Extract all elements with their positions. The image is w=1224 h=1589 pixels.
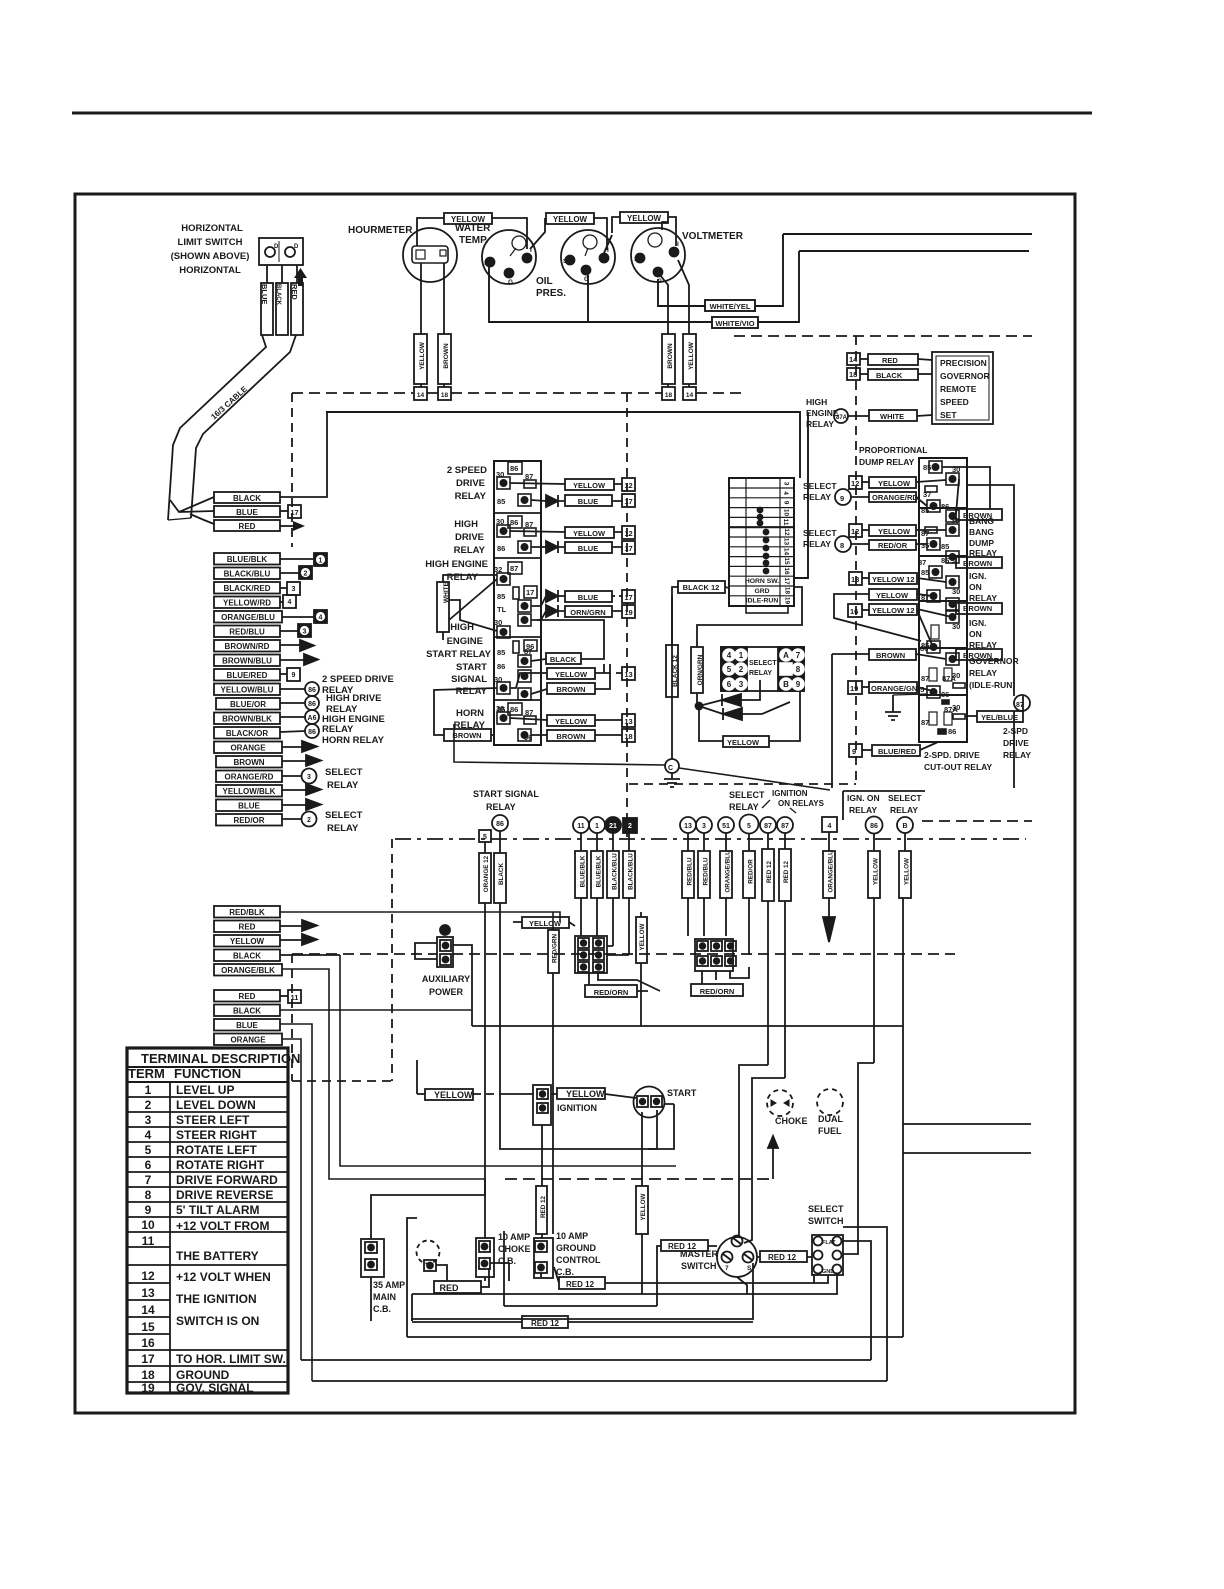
svg-text:10: 10 [141, 1218, 155, 1232]
terminal 17 [288, 505, 301, 518]
svg-text:RELAY: RELAY [455, 491, 487, 502]
wire from oil pres I to voltmeter [604, 235, 612, 253]
wire label BLACK [214, 492, 280, 503]
svg-text:YELLOW: YELLOW [555, 670, 588, 679]
svg-text:4: 4 [727, 651, 732, 660]
svg-text:ORN/GRN: ORN/GRN [570, 608, 605, 617]
svg-text:19: 19 [784, 597, 791, 605]
svg-text:11: 11 [577, 823, 585, 830]
svg-text:12: 12 [851, 479, 859, 488]
svg-text:ORN/GRN: ORN/GRN [697, 654, 704, 685]
terminal 86 circle [305, 724, 319, 738]
svg-text:GND: GND [822, 1269, 834, 1275]
svg-text:REMOTE: REMOTE [940, 384, 977, 394]
svg-text:86: 86 [497, 662, 505, 671]
svg-text:1: 1 [595, 823, 599, 830]
wire crossing to 86 [917, 610, 933, 647]
svg-text:ROTATE LEFT: ROTATE LEFT [176, 1143, 258, 1157]
wire label BLUE [214, 1019, 280, 1031]
svg-text:GROUND: GROUND [176, 1368, 230, 1382]
wire label BROWN vertical [662, 334, 675, 384]
svg-text:2: 2 [304, 571, 308, 578]
svg-text:ORANGE/RD: ORANGE/RD [872, 493, 918, 502]
junction node [696, 703, 703, 710]
svg-text:9: 9 [783, 501, 790, 505]
wire label YELLOW 12 [869, 604, 917, 615]
svg-text:YELLOW: YELLOW [627, 214, 662, 223]
svg-text:ORANGE/BLK: ORANGE/BLK [221, 966, 275, 975]
svg-text:BLUE/BLK: BLUE/BLK [580, 855, 587, 887]
svg-text:RED 12: RED 12 [531, 1319, 560, 1328]
svg-text:7: 7 [796, 651, 801, 660]
svg-text:87: 87 [525, 472, 533, 481]
ign on select relay caption [843, 791, 925, 820]
wire label BROWN right [956, 649, 1002, 660]
svg-text:YELLOW: YELLOW [555, 717, 588, 726]
wire label BLUE [261, 283, 273, 335]
svg-text:YELLOW: YELLOW [727, 738, 760, 747]
svg-text:13: 13 [141, 1286, 155, 1300]
svg-text:DUMP RELAY: DUMP RELAY [859, 457, 915, 467]
wire label RED/BLK [214, 906, 280, 918]
voltmeter gauge [631, 228, 685, 282]
wire RED 12 bottom label [522, 1316, 568, 1328]
wire label YELLOW [869, 477, 916, 488]
svg-text:85: 85 [497, 497, 505, 506]
wire label BROWN [956, 509, 1002, 520]
bottom long wires [301, 898, 1031, 1381]
wire BLACK up to bus [280, 413, 327, 497]
wire ORN/GRN vertical from strip [697, 587, 802, 647]
wire label BLUE to 17 [565, 495, 612, 506]
wire YELLOW from hourmeter [420, 263, 422, 334]
svg-text:3: 3 [783, 482, 790, 486]
svg-text:18: 18 [141, 1368, 155, 1382]
svg-text:17: 17 [624, 497, 632, 506]
svg-text:12: 12 [624, 529, 632, 538]
wire label BLUE [214, 506, 280, 517]
diode D1 [546, 495, 558, 507]
wire label YELLOW 12 [869, 573, 917, 584]
svg-text:BLUE/BLK: BLUE/BLK [227, 555, 268, 564]
select switch S5 [812, 1235, 843, 1275]
svg-text:87: 87 [524, 647, 532, 656]
terminal 86 circle [305, 682, 319, 696]
svg-text:14: 14 [849, 355, 858, 364]
svg-text:SELECT: SELECT [325, 810, 363, 821]
wire label WHITE/VIO [712, 317, 758, 328]
wire fanout to cable labels [170, 497, 214, 524]
wire RED 12 b [784, 833, 786, 849]
svg-text:1: 1 [319, 558, 323, 565]
svg-text:GOV. SIGNAL: GOV. SIGNAL [176, 1381, 254, 1395]
svg-text:RED: RED [882, 356, 898, 365]
svg-text:S: S [563, 258, 568, 265]
svg-text:RELAY: RELAY [806, 419, 834, 429]
svg-text:+12 VOLT WHEN: +12 VOLT WHEN [176, 1270, 271, 1284]
wire label RED/GRN vertical [548, 930, 559, 973]
terminal 4 [283, 595, 296, 608]
wire label WHITE/YEL [705, 300, 755, 311]
wire dashed horizontal y784 [629, 783, 856, 785]
svg-text:85: 85 [921, 506, 929, 515]
svg-text:ORANGE/BLU: ORANGE/BLU [725, 850, 732, 893]
wire ignition down feeds [504, 1093, 506, 1095]
wire select right loop [843, 1241, 871, 1360]
svg-text:BLACK/RED: BLACK/RED [223, 584, 270, 593]
terminal 13 [849, 572, 862, 585]
wire [489, 251, 799, 322]
svg-text:RELAY: RELAY [327, 780, 359, 791]
svg-text:3: 3 [145, 1113, 152, 1127]
svg-text:18: 18 [441, 392, 449, 399]
wire label YEL/BLUE [977, 711, 1023, 722]
svg-text:PRES.: PRES. [536, 288, 566, 299]
svg-text:YELLOW: YELLOW [451, 215, 486, 224]
center relay output rows [434, 478, 635, 742]
svg-text:S: S [747, 1265, 752, 1272]
svg-text:BROWN: BROWN [556, 685, 585, 694]
svg-text:13: 13 [851, 575, 859, 584]
svg-text:3: 3 [307, 774, 311, 781]
svg-text:SELECT: SELECT [749, 660, 777, 667]
svg-text:RELAY: RELAY [322, 724, 354, 735]
wire yellow b down [903, 898, 1031, 1337]
wire label YELLOW vertical [636, 917, 647, 963]
wire RED/BLU a [687, 833, 689, 851]
wire label BROWN/BLU [214, 655, 280, 667]
svg-text:86: 86 [496, 821, 504, 828]
start signal relay terminal 86 [492, 815, 508, 831]
svg-text:HORIZONTAL: HORIZONTAL [179, 265, 241, 276]
wire YELLOW b [904, 833, 906, 851]
svg-text:MAIN: MAIN [373, 1292, 396, 1302]
wire RED/BLU b [703, 833, 705, 851]
svg-text:85: 85 [923, 463, 931, 472]
svg-text:BANG: BANG [969, 527, 994, 537]
svg-text:21: 21 [609, 823, 617, 830]
svg-text:IGN. ON: IGN. ON [847, 793, 880, 803]
wire y1337 [407, 1218, 903, 1337]
svg-text:RELAY: RELAY [454, 545, 486, 556]
svg-text:15: 15 [141, 1320, 155, 1334]
svg-text:RED: RED [239, 522, 256, 531]
terminal 14 [683, 387, 696, 400]
svg-text:HORIZONTAL: HORIZONTAL [181, 223, 243, 234]
fuel pump dashed circle [417, 1241, 440, 1264]
wire label BROWN horn feed [444, 729, 491, 741]
terminal 4 [822, 817, 837, 832]
svg-text:TL: TL [497, 605, 507, 614]
wire dashed horizontal y1081 [292, 1080, 391, 1082]
wire label BROWN to 18 [547, 730, 595, 741]
svg-text:8: 8 [796, 665, 801, 674]
svg-text:87: 87 [921, 718, 929, 727]
svg-text:YELLOW: YELLOW [573, 481, 606, 490]
wire label RED 12 [559, 1277, 605, 1289]
svg-text:7: 7 [145, 1173, 152, 1187]
svg-text:17: 17 [624, 593, 632, 602]
10 amp ground control CB [534, 1238, 553, 1278]
svg-text:YELLOW: YELLOW [566, 1089, 605, 1099]
svg-text:STEER LEFT: STEER LEFT [176, 1113, 250, 1127]
svg-text:86: 86 [308, 729, 316, 736]
svg-text:BLACK: BLACK [233, 494, 261, 503]
svg-text:RED 12: RED 12 [783, 860, 790, 883]
svg-text:RED/GRN: RED/GRN [552, 934, 559, 963]
wire dashed horizontal y947 [292, 953, 955, 955]
svg-text:AUXILIARY: AUXILIARY [422, 974, 470, 984]
svg-text:RELAY: RELAY [1003, 750, 1031, 760]
svg-text:OIL: OIL [536, 276, 553, 287]
2-spd drive relay terminal 87 [1014, 695, 1030, 711]
svg-text:BLACK/BLU: BLACK/BLU [224, 570, 271, 579]
svg-text:ORANGE/RD: ORANGE/RD [225, 773, 274, 782]
svg-text:9: 9 [852, 747, 856, 756]
select relay terminal 3 [302, 769, 317, 784]
svg-text:RELAY: RELAY [969, 593, 997, 603]
wire label YELLOW [869, 525, 916, 536]
svg-text:TEMP.: TEMP. [459, 235, 488, 246]
svg-text:87: 87 [525, 520, 533, 529]
terminal 11 [573, 817, 589, 833]
svg-text:HORN SW.: HORN SW. [745, 578, 779, 585]
svg-text:YELLOW: YELLOW [529, 919, 562, 928]
terminal 4 filled [314, 610, 327, 623]
svg-text:SELECT: SELECT [729, 790, 765, 800]
svg-text:BLUE/BLK: BLUE/BLK [596, 855, 603, 887]
svg-text:5: 5 [145, 1143, 152, 1157]
svg-text:2: 2 [628, 823, 632, 830]
svg-text:B: B [783, 680, 789, 689]
svg-text:LIMIT SWITCH: LIMIT SWITCH [178, 237, 243, 248]
svg-text:BROWN: BROWN [963, 511, 992, 520]
svg-text:YELLOW: YELLOW [640, 1193, 647, 1220]
select relay caption right [803, 481, 837, 549]
wire dashed vertical x627 [626, 393, 628, 839]
svg-text:BLACK: BLACK [550, 655, 577, 664]
auxiliary power outlet [440, 925, 450, 935]
high engine relay terminal 87A [834, 409, 848, 423]
top rule [72, 112, 1092, 115]
svg-text:BLACK: BLACK [275, 284, 281, 306]
svg-text:13: 13 [624, 717, 632, 726]
svg-text:2 SPEED: 2 SPEED [447, 465, 487, 476]
svg-text:WHITE/YEL: WHITE/YEL [710, 302, 751, 311]
wire label RED/ORN [691, 984, 743, 996]
wire label YELLOW to 12 row2 [565, 527, 614, 538]
svg-text:85: 85 [921, 641, 929, 650]
wire label BLACK/BLU [214, 568, 280, 580]
strip pin dots [757, 507, 770, 575]
relay terminal squares with dots [925, 461, 965, 734]
svg-text:BLUE: BLUE [260, 284, 269, 304]
svg-text:2-SPD. DRIVE: 2-SPD. DRIVE [924, 750, 980, 760]
svg-text:13: 13 [684, 823, 692, 830]
svg-text:YELLOW/BLU: YELLOW/BLU [221, 686, 274, 695]
svg-text:86: 86 [510, 464, 518, 473]
wire yellow a to select flat [843, 1063, 874, 1254]
svg-text:HORN RELAY: HORN RELAY [322, 735, 385, 746]
wire label BROWN [956, 603, 1002, 614]
svg-text:START: START [456, 662, 487, 673]
svg-text:4: 4 [288, 599, 292, 606]
svg-text:RELAY: RELAY [486, 802, 516, 812]
svg-text:RED/OR: RED/OR [748, 859, 755, 884]
terminal 3 [287, 582, 300, 595]
terminal 13 [680, 817, 696, 833]
wire label BLUE to 17 row2 [565, 542, 612, 553]
select relay terminal 9 [835, 489, 851, 505]
svg-text:BLACK: BLACK [233, 952, 261, 961]
svg-text:SWITCH: SWITCH [808, 1216, 844, 1226]
svg-text:ENGINE: ENGINE [806, 408, 839, 418]
svg-text:12: 12 [624, 481, 632, 490]
terminal 21 filled [605, 817, 621, 833]
wire label RED [214, 520, 280, 531]
svg-text:14: 14 [686, 392, 694, 399]
svg-text:YELLOW: YELLOW [878, 479, 911, 488]
wire label BROWN/BLK [214, 713, 280, 725]
svg-text:3: 3 [702, 823, 706, 830]
svg-text:D: D [294, 244, 299, 250]
terminal 51 [718, 817, 734, 833]
terminal 5 square [479, 830, 491, 842]
svg-text:2: 2 [739, 665, 744, 674]
svg-text:86: 86 [308, 701, 316, 708]
svg-text:16: 16 [141, 1336, 155, 1350]
wire dashed vertical x391 [391, 839, 393, 1081]
svg-text:86: 86 [948, 727, 956, 736]
svg-text:SPEED: SPEED [940, 397, 969, 407]
svg-text:51: 51 [722, 823, 730, 830]
svg-text:18: 18 [624, 732, 632, 741]
svg-text:4: 4 [782, 491, 789, 495]
wire y1360 [301, 1359, 871, 1361]
wire label RED 12 right of master [760, 1251, 807, 1262]
center relay captions [425, 465, 491, 731]
svg-text:C.B.: C.B. [556, 1267, 574, 1277]
svg-text:YELLOW: YELLOW [639, 923, 646, 950]
svg-text:RED 12: RED 12 [768, 1253, 797, 1262]
svg-text:FLAT: FLAT [822, 1240, 836, 1246]
svg-text:SELECT: SELECT [325, 767, 363, 778]
BLACK 12 horizontal label [454, 581, 830, 790]
wire [658, 234, 783, 306]
svg-text:BROWN: BROWN [452, 731, 481, 740]
wire BLUE/BLK b [596, 833, 598, 851]
svg-text:BLACK/BLU: BLACK/BLU [612, 853, 619, 890]
svg-text:I: I [677, 241, 679, 248]
svg-text:BLUE: BLUE [578, 593, 598, 602]
svg-text:30: 30 [496, 517, 504, 526]
svg-text:SELECT: SELECT [808, 1204, 844, 1214]
ground node C [665, 759, 679, 773]
svg-text:9: 9 [840, 494, 844, 503]
svg-text:RED/BLK: RED/BLK [229, 908, 265, 917]
terminal 3 filled [298, 624, 311, 637]
svg-text:5: 5 [727, 665, 732, 674]
svg-text:BROWN: BROWN [876, 651, 905, 660]
terminal 86 circle [305, 696, 319, 710]
svg-text:12: 12 [851, 527, 859, 536]
svg-text:BLACK: BLACK [498, 863, 505, 885]
svg-text:86: 86 [510, 705, 518, 714]
svg-text:87: 87 [510, 564, 518, 573]
wire label YELLOW/RD [214, 597, 280, 609]
wire label ORANGE/GN [869, 682, 917, 693]
wire BLACK/BLU a [612, 833, 614, 851]
svg-text:2: 2 [145, 1098, 152, 1112]
wire label RED/BLU [214, 626, 280, 638]
terminal 86 [866, 817, 883, 834]
wire label YELLOW to 12 [565, 479, 614, 490]
svg-text:YEL/BLUE: YEL/BLUE [981, 713, 1018, 722]
svg-text:87: 87 [921, 674, 929, 683]
svg-text:87: 87 [764, 823, 772, 830]
wire label BLACK/OR [214, 727, 280, 739]
svg-text:HIGH ENGINE: HIGH ENGINE [425, 559, 488, 570]
wire label YELLOW ignition [557, 1088, 605, 1099]
terminal 16 [848, 604, 862, 617]
svg-text:86: 86 [941, 690, 949, 699]
svg-text:ORANGE/BLU: ORANGE/BLU [828, 850, 835, 893]
svg-text:GOVERNOR: GOVERNOR [940, 371, 990, 381]
wire BLACK 12 vertical [671, 597, 673, 759]
svg-text:32: 32 [494, 565, 502, 574]
wire master S down [412, 1263, 753, 1321]
strip pin numbers right column [782, 482, 791, 605]
svg-text:BROWN/BLU: BROWN/BLU [222, 657, 272, 666]
choke solenoid [767, 1090, 793, 1116]
svg-text:18: 18 [784, 587, 791, 595]
svg-text:STEER RIGHT: STEER RIGHT [176, 1128, 257, 1142]
wire label YELLOW left [425, 1089, 473, 1100]
svg-text:C.B.: C.B. [498, 1256, 516, 1266]
svg-text:DRIVE REVERSE: DRIVE REVERSE [176, 1188, 273, 1202]
svg-text:DUMP: DUMP [969, 538, 994, 548]
svg-text:ON RELAYS: ON RELAYS [778, 799, 825, 808]
svg-text:IGNITION: IGNITION [557, 1103, 597, 1113]
svg-text:DRIVE: DRIVE [1003, 738, 1029, 748]
svg-text:BLACK/OR: BLACK/OR [226, 729, 268, 738]
wire label WHITE [869, 410, 917, 421]
svg-text:RED: RED [290, 284, 299, 300]
white feed label [437, 575, 497, 640]
svg-text:18: 18 [665, 392, 673, 399]
start wires [642, 1104, 674, 1186]
35 amp main CB [361, 1239, 384, 1277]
svg-text:17: 17 [141, 1352, 155, 1366]
precision governor module U1 [932, 352, 993, 424]
wire ORANGE/BLU 4 [828, 832, 830, 851]
svg-text:ON: ON [969, 582, 982, 592]
svg-text:17: 17 [624, 544, 632, 553]
svg-text:3: 3 [739, 680, 744, 689]
svg-text:RED/ORN: RED/ORN [700, 987, 735, 996]
wire label BLACK [276, 283, 288, 335]
svg-text:7: 7 [725, 1265, 729, 1272]
svg-text:VOLTMETER: VOLTMETER [682, 231, 744, 242]
wire label ORANGE [214, 742, 282, 754]
terminal 19 [848, 681, 862, 694]
svg-text:START SIGNAL: START SIGNAL [473, 789, 539, 799]
wire RED/OR [748, 834, 750, 851]
wire dashed horizontal y393 [292, 392, 745, 394]
svg-text:IGN.: IGN. [969, 618, 986, 628]
svg-text:13: 13 [624, 670, 632, 679]
svg-text:WHITE: WHITE [443, 581, 450, 603]
